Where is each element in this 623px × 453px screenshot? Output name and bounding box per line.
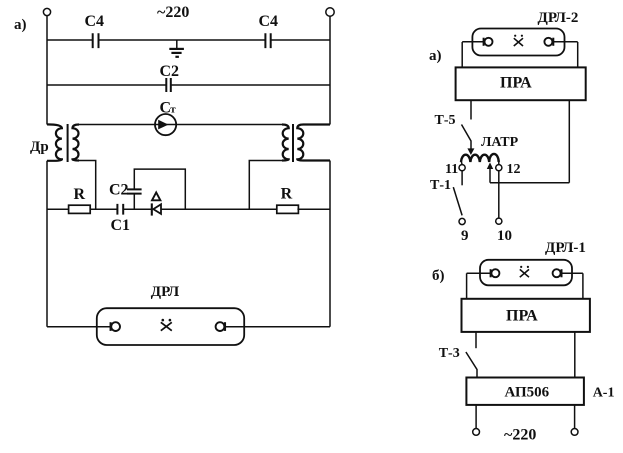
current sensor СТ xyxy=(155,100,176,136)
svg-text:10: 10 xyxy=(497,228,512,244)
lamp ДРЛ-2: right electrode xyxy=(544,38,553,46)
wire: ДРЛ-2 left down xyxy=(461,42,463,67)
wire: left vertical lower xyxy=(46,161,48,327)
svg-text:Др: Др xyxy=(30,139,49,155)
svg-text:9: 9 xyxy=(461,228,469,244)
transformer Др: left winding xyxy=(47,124,62,160)
wire: right vertical lower xyxy=(329,161,331,327)
lamp ДРЛ: left electrode xyxy=(111,322,120,331)
wire: ЛАТР right end to terminal 12 xyxy=(498,162,500,165)
wire: right branch up to ПРА xyxy=(568,100,570,183)
transformer Др: right winding xyxy=(73,125,80,161)
wire: lamp right lead xyxy=(224,326,330,328)
lamp ДРЛ-1: right electrode xyxy=(553,269,562,277)
svg-text:Т-5: Т-5 xyxy=(435,113,456,128)
terminal: b) right xyxy=(571,429,578,436)
block ПРА (a) xyxy=(456,67,586,100)
block ПРА (b) xyxy=(462,299,590,332)
svg-text:С4: С4 xyxy=(85,13,105,30)
svg-text:С1: С1 xyxy=(111,217,131,234)
wire: terminal 12 down to 10 xyxy=(498,171,500,218)
capacitor C4 (left) xyxy=(85,13,105,48)
lamp ДРЛ: bulb outline xyxy=(97,308,244,345)
svg-text:ПРА: ПРА xyxy=(506,308,538,325)
terminal 11 xyxy=(459,165,465,171)
lamp ДРЛ-1: bulb outline xyxy=(480,260,572,286)
terminal: left input xyxy=(43,8,50,15)
svg-text:А-1: А-1 xyxy=(593,386,615,401)
wire: line 3 (CT bus) xyxy=(79,124,283,126)
wire: ДРЛ-2 right lead xyxy=(553,41,577,43)
ground xyxy=(169,40,184,57)
lamp ДРЛ-2: left electrode xyxy=(484,38,493,46)
switch Т-3 xyxy=(439,346,477,378)
svg-text:Т-1: Т-1 xyxy=(430,178,451,193)
wire: line 4 xyxy=(47,208,330,210)
capacitor C1 xyxy=(111,204,131,234)
svg-text:12: 12 xyxy=(507,162,521,177)
lamp ДРЛ: right electrode xyxy=(216,322,225,331)
wire: right vertical upper xyxy=(329,16,331,124)
capacitor C2 (snubber) xyxy=(109,182,142,199)
capacitor C4 (right) xyxy=(259,13,279,48)
svg-text:С4: С4 xyxy=(259,13,279,30)
svg-text:Т-3: Т-3 xyxy=(439,346,460,361)
wire: ДРЛ-1 left down xyxy=(466,273,468,299)
wire: АП506 right lead down xyxy=(574,405,576,429)
capacitor C2 (on line 2) xyxy=(160,63,180,92)
wire: lamp left lead xyxy=(47,326,111,328)
terminal 9 xyxy=(459,218,465,224)
transformer T2: core xyxy=(292,124,294,162)
lamp ДРЛ-2: bulb outline xyxy=(472,29,564,56)
svg-text:ЛАТР: ЛАТР xyxy=(481,135,519,150)
diode Д xyxy=(152,203,161,215)
svg-text:~220: ~220 xyxy=(157,4,189,21)
transformer T2: right winding xyxy=(297,125,330,161)
wire: wiper to right branch xyxy=(490,182,569,184)
terminal: b) left xyxy=(473,429,480,436)
transformer T2: left winding xyxy=(282,125,289,161)
wire: ПРА(b) right output down xyxy=(574,332,576,378)
autotransformer ЛАТР winding xyxy=(461,154,499,162)
svg-text:R: R xyxy=(74,186,86,203)
label Д (triangle marker) xyxy=(152,192,160,200)
terminal 10 xyxy=(496,218,502,224)
wire: ДРЛ-1 right lead xyxy=(562,272,583,274)
wire: ДРЛ-1 right down xyxy=(582,273,584,299)
resistor R (right) xyxy=(277,186,299,214)
lamp ДРЛ: arc symbol xyxy=(161,319,172,331)
switch Т-1 xyxy=(430,171,462,216)
wire: left vertical upper xyxy=(46,16,48,125)
transformer Др: core xyxy=(67,124,69,162)
lamp ДРЛ-1: left electrode xyxy=(491,269,500,277)
lamp ДРЛ-1: arc symbol xyxy=(520,266,529,277)
wire: line 1 (top bus) xyxy=(47,39,330,41)
svg-text:АП506: АП506 xyxy=(505,385,550,401)
svg-text:а): а) xyxy=(14,17,27,33)
wire: ПРА(b) left output xyxy=(475,332,477,348)
svg-text:ДРЛ-2: ДРЛ-2 xyxy=(538,10,579,26)
wire: ЛАТР left end to terminal 11 xyxy=(460,162,463,165)
wire: ДРЛ-2 left lead xyxy=(462,41,483,43)
svg-text:С2: С2 xyxy=(160,63,180,80)
wire: ДРЛ-2 right down xyxy=(577,42,579,67)
svg-text:ПРА: ПРА xyxy=(500,75,532,92)
svg-text:б): б) xyxy=(432,268,445,284)
resistor R (left) xyxy=(69,186,91,213)
svg-text:ДРЛ: ДРЛ xyxy=(151,284,179,300)
svg-text:~220: ~220 xyxy=(504,427,536,444)
wire: line 2 (second bus) xyxy=(47,84,330,86)
wire: ДРЛ-1 left lead xyxy=(467,272,491,274)
lamp ДРЛ-2: arc symbol xyxy=(514,35,523,46)
wire: АП506 left lead down xyxy=(475,405,477,429)
terminal 12 xyxy=(496,165,502,171)
wire: ПРА left output xyxy=(470,100,472,119)
block АП506 xyxy=(466,378,584,405)
svg-text:R: R xyxy=(281,186,293,203)
terminal: right input xyxy=(326,8,334,16)
svg-text:С2: С2 xyxy=(109,182,129,199)
wire: T2 left winding bottom to line 4 xyxy=(249,161,282,210)
ЛАТР wiper arrow xyxy=(487,162,493,182)
switch Т-5 xyxy=(435,113,475,155)
wire: Др secondary bottom to line 4 xyxy=(79,161,96,210)
svg-text:а): а) xyxy=(429,48,442,64)
svg-text:т: т xyxy=(170,104,176,116)
svg-text:11: 11 xyxy=(445,162,458,177)
svg-text:ДРЛ-1: ДРЛ-1 xyxy=(545,240,586,256)
wire: snubber loop (around diode) xyxy=(134,169,185,209)
